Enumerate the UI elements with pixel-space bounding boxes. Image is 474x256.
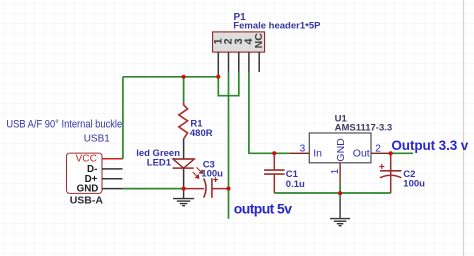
capacitor C2 straight plate xyxy=(380,170,401,172)
capacitor C2 top stub xyxy=(390,153,392,175)
wire VCC vertical from USB1 VCC xyxy=(122,77,124,159)
wire P1 pin1 to pin3 U-shape xyxy=(218,72,239,96)
header P1 box xyxy=(213,32,265,52)
svg-text:100u: 100u xyxy=(403,178,425,189)
U1 In pin stub xyxy=(289,152,309,154)
LED1 anode bar xyxy=(173,158,194,160)
capacitor C3 plus sign xyxy=(213,177,218,182)
capacitor C3 curved plate xyxy=(204,178,206,197)
svg-text:USB A/F 90° Internal buckle: USB A/F 90° Internal buckle xyxy=(6,119,122,131)
svg-text:output 5v: output 5v xyxy=(234,201,292,217)
capacitor C3 left stub xyxy=(184,188,204,190)
svg-text:0.1u: 0.1u xyxy=(286,179,305,190)
wire ground rail under U1 xyxy=(274,192,390,194)
svg-text:3: 3 xyxy=(300,143,306,154)
capacitor C1 bottom stub xyxy=(273,174,275,193)
U1 GND pin stub xyxy=(339,163,341,184)
USB1 D- pin stub xyxy=(102,168,123,170)
capacitor C1 top stub xyxy=(273,153,275,170)
header P1 pin NC stub xyxy=(258,52,260,72)
junction dot at LED cathode / ground node xyxy=(182,187,186,191)
junction dot at C2 / Out node xyxy=(389,151,393,155)
capacitor C2 bottom stub xyxy=(390,176,392,193)
header P1 pin 3 stub xyxy=(238,52,240,72)
USB1 VCC pin stub (red) xyxy=(102,158,123,160)
wire VCC horizontal 5V rail xyxy=(123,76,218,78)
capacitor C2 curved plate xyxy=(380,175,401,178)
resistor R1 xyxy=(179,102,188,139)
svg-text:NC: NC xyxy=(253,33,265,49)
wire U1 GND pin to rail xyxy=(339,183,341,198)
wire P1 pin4 to U1 In xyxy=(249,72,289,153)
LED1 cathode stub xyxy=(183,168,185,188)
svg-text:Out: Out xyxy=(353,147,370,159)
wire U1 Out to output 3.3v xyxy=(391,152,413,154)
header P1 pin 1 stub xyxy=(217,52,219,76)
capacitor C1 plate top xyxy=(264,169,285,171)
capacitor C3 right stub xyxy=(212,188,229,190)
svg-text:Output 3.3 v: Output 3.3 v xyxy=(391,138,468,153)
capacitor C3 straight plate xyxy=(211,178,213,198)
LED1 light arrow 1 xyxy=(193,172,199,178)
svg-text:1: 1 xyxy=(330,168,341,174)
junction dot at C1 / In node xyxy=(272,151,276,155)
svg-text:AMS1117-3.3: AMS1117-3.3 xyxy=(335,123,393,134)
junction dot on 5V rail at P1 pin1 xyxy=(216,75,220,79)
svg-text:USB1: USB1 xyxy=(84,133,111,144)
junction dot on 5V rail at R1 xyxy=(182,75,186,79)
svg-text:GND: GND xyxy=(335,138,347,162)
svg-text:USB-A: USB-A xyxy=(70,195,104,207)
USB1 D+ pin stub xyxy=(102,178,123,180)
LED1 light arrow 2 xyxy=(197,167,203,173)
page border line xyxy=(463,0,465,256)
LED1 triangle xyxy=(173,159,194,168)
header P1 pin 4 stub xyxy=(248,52,250,72)
capacitor C1 plate bottom xyxy=(264,173,285,175)
junction dot at U1 GND / rail xyxy=(338,191,342,195)
USB1 connector box xyxy=(67,153,103,193)
LED1 anode stub xyxy=(183,139,185,159)
svg-text:480R: 480R xyxy=(190,128,213,139)
wire R1 top xyxy=(183,77,185,103)
regulator U1 box xyxy=(309,133,371,163)
capacitor C2 plus sign xyxy=(379,164,384,169)
svg-text:100u: 100u xyxy=(201,169,223,180)
junction dot at C3 / pin2 wire xyxy=(226,187,230,191)
header P1 pin 2 stub xyxy=(228,52,230,72)
svg-text:Female header1*5P: Female header1*5P xyxy=(233,20,321,32)
USB1 GND pin stub xyxy=(102,188,123,190)
ground under U1 xyxy=(330,199,350,226)
wire P1 pin2 vertical (output 5v net) xyxy=(228,72,230,219)
LED1 cathode bar xyxy=(173,167,194,169)
svg-text:2: 2 xyxy=(375,143,381,154)
ground at LED node xyxy=(173,189,194,206)
svg-text:GND: GND xyxy=(77,184,99,195)
svg-text:In: In xyxy=(313,147,322,159)
wire USB GND to LED node xyxy=(123,188,184,190)
svg-text:LED1: LED1 xyxy=(147,157,172,168)
U1 Out pin stub xyxy=(371,152,391,154)
